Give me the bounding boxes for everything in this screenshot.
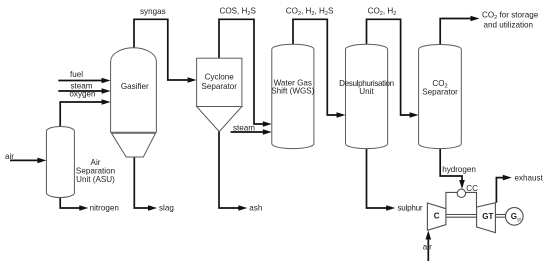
svg-text:Unit (ASU): Unit (ASU) — [76, 175, 115, 184]
svg-text:Separator: Separator — [201, 82, 237, 91]
svg-text:and utilization: and utilization — [484, 21, 534, 30]
svg-text:fuel: fuel — [70, 70, 83, 79]
svg-text:Gasifier: Gasifier — [121, 82, 149, 91]
svg-text:G: G — [511, 212, 517, 221]
svg-text:exhaust: exhaust — [515, 174, 544, 183]
svg-text:nitrogen: nitrogen — [90, 203, 119, 212]
svg-text:air: air — [5, 152, 14, 161]
svg-text:steam: steam — [233, 124, 255, 133]
svg-text:CC: CC — [466, 184, 478, 193]
svg-text:Separator: Separator — [422, 87, 458, 96]
svg-text:syngas: syngas — [140, 7, 166, 16]
svg-text:hydrogen: hydrogen — [442, 165, 476, 174]
svg-text:slag: slag — [159, 203, 174, 212]
svg-text:C: C — [434, 211, 440, 220]
svg-text:air: air — [423, 243, 432, 252]
svg-text:sulphur: sulphur — [398, 203, 423, 212]
svg-text:Unit: Unit — [359, 87, 374, 96]
svg-text:GT: GT — [482, 212, 493, 221]
svg-text:ash: ash — [249, 203, 262, 212]
svg-text:Cyclone: Cyclone — [205, 73, 235, 82]
svg-text:Shift (WGS): Shift (WGS) — [271, 86, 314, 95]
svg-text:oxygen: oxygen — [69, 90, 95, 99]
